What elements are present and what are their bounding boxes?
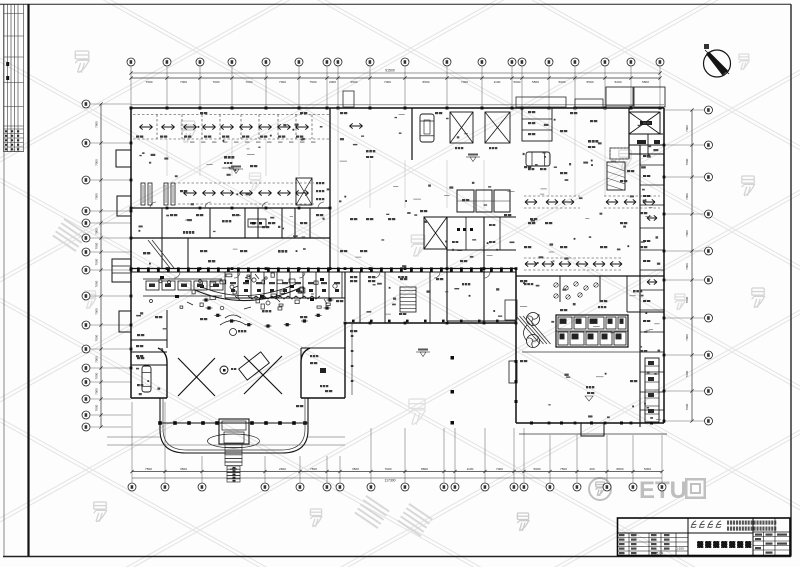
- svg-text:7000: 7000: [385, 467, 392, 471]
- svg-text:7000: 7000: [95, 193, 99, 200]
- svg-text:7000: 7000: [95, 334, 99, 341]
- svg-text:7000: 7000: [685, 230, 689, 237]
- svg-text:7000: 7000: [95, 308, 99, 315]
- svg-text:7500: 7500: [146, 80, 153, 84]
- svg-text:7000: 7000: [685, 334, 689, 341]
- svg-text:7000: 7000: [279, 80, 286, 84]
- svg-text:3500: 3500: [352, 467, 359, 471]
- svg-text:5500: 5500: [587, 80, 594, 84]
- svg-text:8800: 8800: [421, 467, 428, 471]
- svg-text:5000: 5000: [534, 467, 541, 471]
- svg-text:2600: 2600: [279, 467, 286, 471]
- svg-text:7000: 7000: [685, 263, 689, 270]
- svg-text:7000: 7000: [95, 159, 99, 166]
- svg-text:7000: 7000: [685, 403, 689, 410]
- svg-text:1100: 1100: [467, 467, 474, 471]
- svg-text:7000: 7000: [95, 280, 99, 287]
- svg-text:91500: 91500: [385, 69, 395, 73]
- svg-text:400: 400: [589, 467, 594, 471]
- svg-text:5000: 5000: [514, 80, 521, 84]
- svg-text:7000: 7000: [95, 372, 99, 379]
- svg-text:7000: 7000: [685, 125, 689, 132]
- svg-text:7000: 7000: [384, 80, 391, 84]
- svg-text:1100: 1100: [494, 80, 501, 84]
- svg-text:7000: 7000: [685, 158, 689, 165]
- svg-text:7000: 7000: [685, 296, 689, 303]
- svg-text:5000: 5000: [644, 467, 651, 471]
- svg-text:5000: 5000: [559, 80, 566, 84]
- svg-text:7500: 7500: [310, 467, 317, 471]
- svg-text:5500: 5500: [532, 80, 539, 84]
- svg-text:7000: 7000: [685, 370, 689, 377]
- svg-text:7500: 7500: [310, 80, 317, 84]
- svg-text:7000: 7000: [95, 258, 99, 265]
- svg-text:7000: 7000: [180, 80, 187, 84]
- svg-text:7000: 7000: [685, 193, 689, 200]
- svg-text:7000: 7000: [95, 121, 99, 128]
- svg-text:1:100: 1:100: [676, 547, 684, 551]
- svg-text:7000: 7000: [95, 242, 99, 249]
- svg-text:117300: 117300: [384, 479, 395, 483]
- svg-text:5800: 5800: [642, 80, 649, 84]
- svg-text:7500: 7500: [145, 467, 152, 471]
- svg-text:6500: 6500: [351, 80, 358, 84]
- svg-text:7000: 7000: [95, 356, 99, 363]
- svg-text:8800: 8800: [617, 467, 624, 471]
- svg-text:2005.04: 2005.04: [651, 552, 663, 556]
- svg-text:3500: 3500: [180, 467, 187, 471]
- svg-text:7000: 7000: [213, 80, 220, 84]
- svg-text:7000: 7000: [95, 388, 99, 395]
- svg-text:7000: 7000: [246, 80, 253, 84]
- svg-text:2000: 2000: [329, 80, 336, 84]
- svg-text:7000: 7000: [461, 80, 468, 84]
- svg-text:7000: 7000: [95, 404, 99, 411]
- svg-text:7000: 7000: [95, 228, 99, 235]
- svg-text:7000: 7000: [496, 467, 503, 471]
- svg-text:7500: 7500: [560, 467, 567, 471]
- svg-text:5200: 5200: [615, 80, 622, 84]
- svg-text:8500: 8500: [423, 80, 430, 84]
